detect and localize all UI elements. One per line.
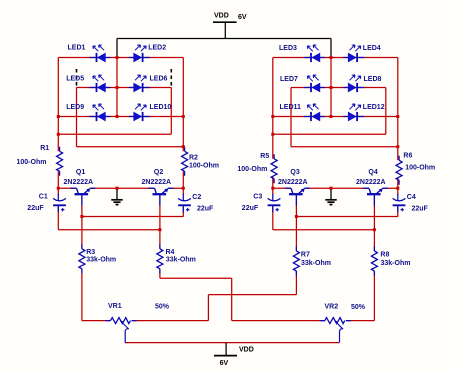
svg-text:100-Ohm: 100-Ohm	[17, 159, 47, 166]
svg-text:33k-Ohm: 33k-Ohm	[86, 257, 116, 264]
svg-text:R1: R1	[40, 145, 49, 152]
svg-text:6V: 6V	[220, 360, 229, 367]
svg-text:6V: 6V	[238, 14, 247, 21]
svg-text:VDD: VDD	[214, 13, 229, 20]
svg-text:33k-Ohm: 33k-Ohm	[301, 260, 331, 267]
svg-text:LED6: LED6	[150, 76, 168, 83]
svg-text:2N2222A: 2N2222A	[142, 179, 172, 186]
svg-text:R5: R5	[260, 153, 269, 160]
svg-text:LED5: LED5	[66, 75, 84, 82]
svg-text:33k-Ohm: 33k-Ohm	[381, 260, 411, 267]
svg-text:VR2: VR2	[325, 303, 339, 310]
svg-text:LED8: LED8	[364, 76, 382, 83]
svg-text:Q1: Q1	[76, 169, 85, 176]
svg-text:LED9: LED9	[66, 104, 84, 111]
svg-text:LED7: LED7	[280, 76, 298, 83]
svg-text:R7: R7	[301, 252, 310, 259]
svg-text:2N2222A: 2N2222A	[278, 179, 308, 186]
svg-text:LED2: LED2	[148, 44, 166, 51]
svg-text:R3: R3	[86, 249, 95, 256]
svg-text:100-Ohm: 100-Ohm	[405, 165, 435, 172]
svg-text:Q4: Q4	[368, 169, 377, 176]
svg-text:Q3: Q3	[290, 169, 299, 176]
svg-text:C1: C1	[39, 193, 48, 200]
svg-text:22uF: 22uF	[242, 205, 259, 212]
svg-text:LED3: LED3	[279, 45, 297, 52]
svg-text:R4: R4	[166, 249, 175, 256]
svg-text:2N2222A: 2N2222A	[64, 179, 94, 186]
svg-text:C3: C3	[253, 193, 262, 200]
svg-text:50%: 50%	[351, 304, 366, 311]
svg-text:VR1: VR1	[108, 303, 122, 310]
svg-text:22uF: 22uF	[197, 206, 214, 213]
svg-text:LED4: LED4	[363, 45, 381, 52]
svg-text:LED11: LED11	[280, 104, 302, 111]
svg-text:2N2222A: 2N2222A	[356, 179, 386, 186]
svg-text:50%: 50%	[155, 304, 170, 311]
svg-text:100-Ohm: 100-Ohm	[237, 166, 267, 173]
svg-text:LED12: LED12	[363, 104, 385, 111]
svg-text:R8: R8	[380, 252, 389, 259]
svg-text:R2: R2	[189, 154, 198, 161]
svg-text:R6: R6	[403, 152, 412, 159]
svg-text:22uF: 22uF	[27, 205, 44, 212]
svg-text:C4: C4	[407, 194, 416, 201]
svg-text:VDD: VDD	[239, 347, 254, 354]
svg-text:LED1: LED1	[68, 44, 86, 51]
svg-text:22uF: 22uF	[412, 206, 429, 213]
svg-text:33k-Ohm: 33k-Ohm	[166, 257, 196, 264]
svg-text:LED10: LED10	[150, 104, 172, 111]
svg-text:C2: C2	[192, 194, 201, 201]
svg-text:Q2: Q2	[154, 169, 163, 176]
svg-text:100-Ohm: 100-Ohm	[189, 163, 219, 170]
